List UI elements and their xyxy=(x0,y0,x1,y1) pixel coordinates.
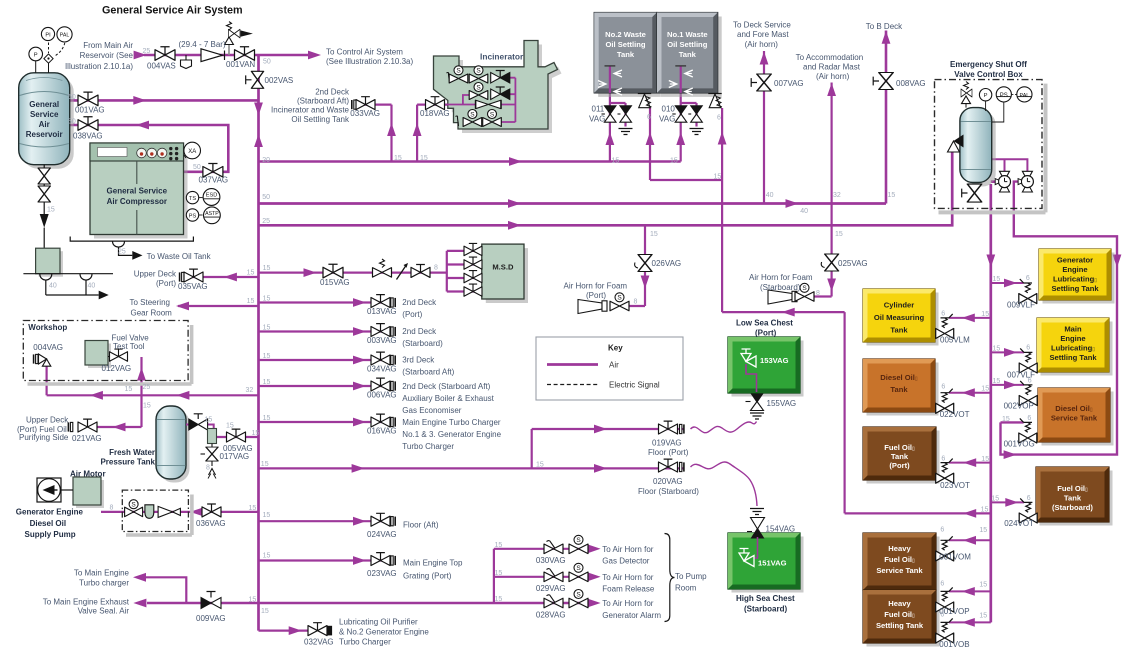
svg-text:(Air horn): (Air horn) xyxy=(745,40,779,49)
svg-text:15: 15 xyxy=(249,505,257,512)
svg-text:026VAG: 026VAG xyxy=(652,259,682,268)
relief valve no2 waste tank xyxy=(638,94,652,108)
svg-text:025VAG: 025VAG xyxy=(838,259,868,268)
gauge PAL xyxy=(57,27,72,42)
wire 006VAG branch xyxy=(259,385,391,387)
svg-text:15: 15 xyxy=(495,570,503,577)
svg-text:Tank: Tank xyxy=(890,385,908,394)
svg-text:2nd Deck: 2nd Deck xyxy=(315,88,350,97)
svg-text:Valve Seal. Air: Valve Seal. Air xyxy=(78,607,130,616)
svg-text:Purifying Side: Purifying Side xyxy=(19,433,69,442)
svg-text:Grating (Port): Grating (Port) xyxy=(403,572,452,581)
valve 036VAG xyxy=(202,504,221,517)
svg-text:50: 50 xyxy=(193,164,201,171)
valve 005VAG xyxy=(227,429,246,442)
svg-text:15: 15 xyxy=(247,298,255,305)
valve 002VOP xyxy=(1019,381,1037,406)
valve 002VAS xyxy=(246,71,264,88)
labels incinerator area xyxy=(271,52,524,163)
svg-text:012VAG: 012VAG xyxy=(102,364,132,373)
reservoir drain valves xyxy=(38,165,50,249)
labels deck branch valves xyxy=(263,296,502,452)
svg-text:20: 20 xyxy=(262,157,270,164)
svg-text:2nd Deck: 2nd Deck xyxy=(402,298,437,307)
svg-text:(Starboard): (Starboard) xyxy=(1052,503,1093,512)
svg-text:6: 6 xyxy=(1028,378,1032,385)
svg-text:50: 50 xyxy=(68,119,76,126)
svg-text:15: 15 xyxy=(263,325,271,332)
svg-text:153VAG: 153VAG xyxy=(760,356,789,365)
valve 153VAG white xyxy=(741,349,756,367)
valve 006VAG with hose xyxy=(371,378,395,391)
svg-text:General: General xyxy=(29,100,59,109)
vessel general service air reservoir xyxy=(19,73,74,169)
svg-text:Air Horn for Foam: Air Horn for Foam xyxy=(564,282,628,291)
svg-text:Diesel Oil▯: Diesel Oil▯ xyxy=(1055,404,1093,413)
valve 010VAG pair with ground xyxy=(672,106,703,135)
wire low sea chest feed branch y513 xyxy=(845,512,991,514)
svg-text:To Air Horn for: To Air Horn for xyxy=(602,545,653,554)
svg-text:Test Tool: Test Tool xyxy=(113,342,145,351)
svg-text:Foam Release: Foam Release xyxy=(602,585,655,594)
svg-text:022VOT: 022VOT xyxy=(940,410,970,419)
svg-text:ASTP: ASTP xyxy=(205,211,219,217)
svg-text:Tank: Tank xyxy=(617,50,635,59)
svg-text:Fuel Oil▯: Fuel Oil▯ xyxy=(1057,484,1088,493)
svg-text:017VAG: 017VAG xyxy=(220,452,250,461)
valve 011VAG pair with ground xyxy=(602,106,633,135)
svg-text:Diesel Oil▯: Diesel Oil▯ xyxy=(880,373,918,382)
svg-text:038VAG: 038VAG xyxy=(73,131,103,140)
solenoid valve generator alarm horn xyxy=(569,590,588,608)
svg-text:6: 6 xyxy=(1026,275,1030,282)
waste tank spray nozzles no2 xyxy=(598,66,622,95)
valve before MSD header xyxy=(411,265,430,278)
svg-text:15: 15 xyxy=(888,192,896,199)
wire 019VAG hose wavy to 155VAG xyxy=(691,422,757,433)
valve 032VAG xyxy=(308,623,332,636)
labels waste oil tanks area xyxy=(589,105,721,181)
svg-text:From Main Air: From Main Air xyxy=(83,41,133,50)
gauge PI xyxy=(41,27,54,40)
svg-text:Floor (Aft): Floor (Aft) xyxy=(403,521,439,530)
wire 001VAG line y100 xyxy=(69,99,259,102)
solenoid valve foam release horn xyxy=(569,563,588,581)
svg-text:6: 6 xyxy=(941,456,945,463)
check valve in pump box xyxy=(158,506,180,517)
svg-text:& No.2 Generator Engine: & No.2 Generator Engine xyxy=(339,628,429,637)
wire tank feed manifold xyxy=(991,182,998,623)
svg-text:15: 15 xyxy=(143,403,151,410)
svg-text:15: 15 xyxy=(125,386,133,393)
labels deck service masts xyxy=(733,21,926,216)
valve 038VAG xyxy=(78,117,98,131)
svg-text:024VAG: 024VAG xyxy=(367,530,397,539)
wire 036VAG supply pump line xyxy=(101,511,259,513)
wire workshop supply line xyxy=(47,357,259,427)
wire no1 tank internal overlay xyxy=(680,67,682,93)
svg-text:15: 15 xyxy=(495,596,503,603)
wire low sea chest valve stub xyxy=(746,364,757,392)
svg-text:To Steering: To Steering xyxy=(130,298,170,307)
svg-text:001VOG: 001VOG xyxy=(1004,440,1035,449)
wire 016VAG branch xyxy=(259,421,391,423)
svg-text:Emergency Shut Off: Emergency Shut Off xyxy=(950,60,1027,69)
svg-text:PAL: PAL xyxy=(1020,93,1030,99)
svg-text:028VAG: 028VAG xyxy=(536,611,566,620)
svg-text:033VAG: 033VAG xyxy=(350,109,380,118)
svg-text:Fuel Oil▯: Fuel Oil▯ xyxy=(884,610,915,619)
svg-text:Heavy: Heavy xyxy=(888,544,911,553)
svg-text:Gear Room: Gear Room xyxy=(131,309,173,318)
title General Service Air System xyxy=(102,5,243,17)
svg-text:021VAG: 021VAG xyxy=(72,434,102,443)
svg-text:Main Engine Turbo Charger: Main Engine Turbo Charger xyxy=(402,418,501,427)
gauge XA on compressor xyxy=(184,142,201,159)
svg-text:037VAG: 037VAG xyxy=(199,176,229,185)
svg-text:020VAG: 020VAG xyxy=(653,477,683,486)
wire 023VOT branch xyxy=(949,462,991,464)
instrument signal dashes and diamond xyxy=(44,43,65,73)
svg-text:001VOM: 001VOM xyxy=(939,553,971,562)
svg-text:3rd Deck: 3rd Deck xyxy=(402,356,435,365)
svg-text:15: 15 xyxy=(263,265,271,272)
svg-text:(Port): (Port) xyxy=(156,279,176,288)
valve 007VLF xyxy=(1019,348,1037,373)
svg-text:15: 15 xyxy=(981,456,989,463)
svg-text:8: 8 xyxy=(206,465,210,472)
tank low sea chest xyxy=(728,337,804,397)
wire bottom main y603 xyxy=(147,602,591,605)
svg-text:Fuel Oil▯: Fuel Oil▯ xyxy=(884,443,915,452)
tank fuel oil starboard xyxy=(1036,467,1113,526)
svg-text:Oil Settling: Oil Settling xyxy=(605,40,645,49)
svg-text:15: 15 xyxy=(263,296,271,303)
svg-text:15: 15 xyxy=(993,276,1001,283)
svg-text:Service Tank: Service Tank xyxy=(876,566,923,575)
valve 033VAG with hose connection xyxy=(352,97,375,110)
wire air horn riser x494 xyxy=(494,549,591,603)
valve 009VLF xyxy=(1019,279,1037,304)
svg-text:Air: Air xyxy=(39,120,50,129)
wire emergency box tank outlet piping xyxy=(992,159,1028,171)
svg-text:P: P xyxy=(34,52,38,58)
svg-text:009VLF: 009VLF xyxy=(1007,301,1035,310)
svg-text:Generator: Generator xyxy=(1057,256,1093,265)
labels emergency box xyxy=(950,60,1027,79)
svg-text:15: 15 xyxy=(979,527,987,534)
svg-text:PI: PI xyxy=(45,32,51,38)
svg-text:Tank: Tank xyxy=(679,50,697,59)
svg-text:Fresh Water: Fresh Water xyxy=(109,448,155,457)
wire to control air system xyxy=(259,54,312,57)
flow controller 1 xyxy=(995,171,1010,192)
valve 021VAG with hose xyxy=(68,419,97,432)
svg-text:023VAG: 023VAG xyxy=(367,569,397,578)
svg-text:(Port): (Port) xyxy=(755,329,777,338)
svg-text:40: 40 xyxy=(49,283,57,290)
svg-text:Illustration 2.10.1a): Illustration 2.10.1a) xyxy=(65,62,133,71)
wire incinerator internal piping xyxy=(463,78,516,122)
svg-text:Oil Settling Tank: Oil Settling Tank xyxy=(291,115,350,124)
tank heavy fuel oil settling xyxy=(863,590,940,647)
tank heavy fuel oil service xyxy=(863,533,940,594)
labels top left area xyxy=(47,40,413,225)
svg-text:General Service Air System: General Service Air System xyxy=(102,5,243,17)
valve 020VAG with hose xyxy=(659,459,684,472)
gauge P emergency xyxy=(979,89,991,112)
svg-text:Service Tank: Service Tank xyxy=(1051,414,1098,423)
svg-text:Engine: Engine xyxy=(1062,265,1087,274)
wire high sea chest valve stub xyxy=(754,537,758,558)
svg-text:Lubricating Oil Purifier: Lubricating Oil Purifier xyxy=(339,618,418,627)
wire to main engine turbo charger xyxy=(145,577,186,603)
svg-text:6: 6 xyxy=(1027,495,1031,502)
svg-text:(Air horn): (Air horn) xyxy=(816,72,850,81)
svg-text:001VOB: 001VOB xyxy=(939,640,969,649)
wire high sea chest internal xyxy=(754,538,758,558)
air horn for foam starboard with solenoid valve xyxy=(768,283,814,304)
svg-text:15: 15 xyxy=(495,542,503,549)
svg-text:Valve Control Box: Valve Control Box xyxy=(954,70,1023,79)
labels MSD line xyxy=(263,265,438,288)
valve 024VOT xyxy=(1019,498,1037,523)
wire 002VOP branch xyxy=(991,384,1024,386)
reducer cone xyxy=(201,49,225,62)
valve 035VAG with hose xyxy=(180,269,203,282)
svg-text:030VAG: 030VAG xyxy=(536,556,566,565)
svg-text:15: 15 xyxy=(263,415,271,422)
svg-text:PS: PS xyxy=(1000,93,1008,99)
svg-text:15: 15 xyxy=(979,582,987,589)
labels floor valves and sea chests xyxy=(261,319,796,614)
svg-text:M.S.D: M.S.D xyxy=(492,262,514,271)
equipment small green unit below reservoir xyxy=(36,248,63,277)
svg-text:Gas Detector: Gas Detector xyxy=(602,557,649,566)
valve 022VOT xyxy=(936,389,954,414)
svg-text:007VAG: 007VAG xyxy=(774,79,804,88)
check valve emergency inlet xyxy=(948,135,964,153)
svg-text:Lubricating▯: Lubricating▯ xyxy=(1053,275,1097,284)
svg-text:024VOT: 024VOT xyxy=(1004,519,1034,528)
svg-text:High Sea Chest: High Sea Chest xyxy=(736,594,795,603)
svg-text:2nd Deck: 2nd Deck xyxy=(402,327,437,336)
wire 009VLF branch xyxy=(991,282,1024,284)
svg-text:40: 40 xyxy=(766,192,774,199)
svg-text:6: 6 xyxy=(647,114,651,121)
svg-text:Tank: Tank xyxy=(1064,494,1082,503)
gauge P xyxy=(29,47,43,73)
svg-text:15: 15 xyxy=(835,231,843,238)
svg-text:Oil Measuring: Oil Measuring xyxy=(874,313,925,322)
valve 001VOP xyxy=(936,587,954,612)
svg-text:009VAG: 009VAG xyxy=(196,614,226,623)
svg-text:15: 15 xyxy=(536,462,544,469)
svg-text:151VAG: 151VAG xyxy=(758,559,787,568)
svg-text:155VAG: 155VAG xyxy=(767,399,797,408)
svg-text:15: 15 xyxy=(612,158,620,165)
svg-text:6: 6 xyxy=(1027,415,1031,422)
valve 154VAG with ground xyxy=(747,509,765,539)
svg-text:and Fore Mast: and Fore Mast xyxy=(737,30,789,39)
svg-text:No.1 Waste: No.1 Waste xyxy=(667,30,708,39)
svg-text:Generator Alarm: Generator Alarm xyxy=(602,611,661,620)
svg-text:Settling Tank: Settling Tank xyxy=(1051,284,1099,293)
svg-text:8: 8 xyxy=(816,290,820,297)
svg-text:Main: Main xyxy=(1064,325,1082,334)
svg-text:25: 25 xyxy=(143,384,151,391)
svg-text:Oil Settling: Oil Settling xyxy=(667,40,707,49)
gauge TS xyxy=(186,191,202,203)
svg-text:Low Sea Chest: Low Sea Chest xyxy=(736,319,793,328)
tank cylinder oil measuring xyxy=(863,289,939,346)
wire 033VAG riser xyxy=(356,105,392,162)
svg-text:002VAS: 002VAS xyxy=(265,76,294,85)
wire main distribution y225.3 to emergency box xyxy=(259,150,953,225)
valve 012VAG xyxy=(108,349,128,361)
svg-text:15: 15 xyxy=(979,613,987,620)
equipment incinerator body xyxy=(434,41,562,134)
svg-text:VAG: VAG xyxy=(659,115,675,124)
wire low sea chest internal xyxy=(746,366,757,392)
equipment fuel valve test tool green box xyxy=(85,341,111,369)
wire 001VOP branch xyxy=(949,590,991,592)
svg-text:019VAG: 019VAG xyxy=(652,439,682,448)
brace to pump room xyxy=(665,534,675,622)
svg-text:Incinerator: Incinerator xyxy=(480,52,524,62)
svg-text:8: 8 xyxy=(434,265,438,272)
wire 024VAG branch xyxy=(259,520,393,522)
svg-text:15: 15 xyxy=(991,496,999,503)
tank diesel oil service xyxy=(1038,388,1114,446)
svg-text:6: 6 xyxy=(717,115,721,122)
svg-text:15: 15 xyxy=(670,158,678,165)
svg-text:006VAG: 006VAG xyxy=(367,391,397,400)
svg-text:Cylinder: Cylinder xyxy=(884,301,914,310)
svg-text:PAL: PAL xyxy=(60,33,70,39)
svg-text:To B Deck: To B Deck xyxy=(866,22,903,31)
valve 007VAG xyxy=(751,74,771,91)
svg-text:004VAS: 004VAS xyxy=(147,62,176,71)
svg-text:To Main Engine: To Main Engine xyxy=(74,569,130,578)
svg-text:029VAG: 029VAG xyxy=(536,584,566,593)
svg-text:40: 40 xyxy=(800,208,808,215)
svg-text:6: 6 xyxy=(940,581,944,588)
svg-text:15: 15 xyxy=(1002,416,1010,423)
svg-text:15: 15 xyxy=(263,379,271,386)
svg-text:15: 15 xyxy=(993,378,1001,385)
svg-text:32: 32 xyxy=(246,387,254,394)
valve 013VAG with hose xyxy=(371,295,395,308)
svg-text:Workshop: Workshop xyxy=(28,323,67,332)
valve 028VAG needle xyxy=(544,595,563,608)
svg-text:25: 25 xyxy=(262,218,270,225)
svg-text:036VAG: 036VAG xyxy=(196,519,226,528)
wire 038VAG line to compressor via 037VAG xyxy=(69,125,228,172)
svg-text:15: 15 xyxy=(650,231,658,238)
labels left middle xyxy=(17,249,254,444)
svg-text:004VAG: 004VAG xyxy=(33,343,63,352)
wire 024VOT branch xyxy=(991,501,1024,503)
tank no2 waste oil settling xyxy=(594,13,661,97)
svg-text:018VAG: 018VAG xyxy=(420,109,450,118)
valve 001VOB xyxy=(936,618,954,643)
labels lower branches xyxy=(43,521,463,647)
svg-text:Turbo Charger: Turbo Charger xyxy=(402,442,454,451)
svg-text:Supply Pump: Supply Pump xyxy=(25,530,76,539)
valve 015VAG xyxy=(323,264,343,278)
tank diesel oil xyxy=(863,359,939,416)
wire no2 relief drop to y180 xyxy=(650,108,722,180)
tank generator engine lubricating settling xyxy=(1039,249,1115,304)
wire B deck riser 008VAG xyxy=(885,31,888,204)
svg-text:15: 15 xyxy=(981,507,989,514)
svg-text:ESD: ESD xyxy=(206,193,218,199)
wire 020VAG floor starboard line xyxy=(259,467,685,469)
svg-text:013VAG: 013VAG xyxy=(367,307,397,316)
svg-text:15: 15 xyxy=(261,608,269,615)
svg-text:154VAG: 154VAG xyxy=(766,525,796,534)
pressure reducer flag symbol xyxy=(181,55,192,69)
svg-text:15: 15 xyxy=(249,597,257,604)
wire flow controller 2 loop to right side xyxy=(1001,182,1118,455)
valve 004VAG angle with hose xyxy=(34,354,51,366)
wire 020VAG hose wavy to 154VAG xyxy=(691,462,758,506)
svg-text:50: 50 xyxy=(262,194,270,201)
svg-text:No.2 Waste: No.2 Waste xyxy=(605,30,646,39)
wire 035VAG upper deck line xyxy=(185,276,259,278)
svg-text:(Starboard Aft): (Starboard Aft) xyxy=(297,97,349,106)
svg-text:Floor (Port): Floor (Port) xyxy=(648,448,689,457)
valve 017VAG xyxy=(201,444,219,479)
gauge ESD xyxy=(203,189,220,206)
valve 004VAS xyxy=(155,47,175,61)
svg-text:15: 15 xyxy=(226,423,234,430)
wire 013VAG branch xyxy=(259,301,391,303)
svg-text:15: 15 xyxy=(981,386,989,393)
svg-text:15: 15 xyxy=(205,417,213,424)
valve 026VAG xyxy=(635,255,652,272)
incinerator valve row2 with solenoid xyxy=(469,83,488,100)
valve 155VAG with ground xyxy=(746,394,765,420)
svg-text:25: 25 xyxy=(143,48,151,55)
svg-text:To Waste Oil Tank: To Waste Oil Tank xyxy=(147,252,212,261)
gauge PS emergency xyxy=(992,87,1011,122)
inline filter green xyxy=(208,429,217,444)
MSD inlet valves x4 xyxy=(464,243,482,296)
svg-text:Reservoir (See: Reservoir (See xyxy=(80,51,134,60)
wire incinerator header y161.5 xyxy=(259,160,681,163)
svg-text:011: 011 xyxy=(592,105,605,114)
wire 018VAG riser xyxy=(417,105,476,162)
svg-text:15: 15 xyxy=(714,174,722,181)
wire accommodation riser and 025VAG drop to air horn xyxy=(813,83,832,297)
labels right tank manifold xyxy=(939,275,1035,649)
solenoid valve gas detector horn xyxy=(569,535,588,553)
wire 019VAG floor port line xyxy=(532,429,684,468)
valve 009VAG xyxy=(201,592,221,609)
svg-text:Incinerator and Waste: Incinerator and Waste xyxy=(271,106,350,115)
wire 005VLM branch xyxy=(949,317,991,319)
svg-text:50: 50 xyxy=(263,59,271,66)
svg-text:To Main Engine Exhaust: To Main Engine Exhaust xyxy=(43,598,130,607)
tank high sea chest xyxy=(728,533,804,593)
relief valve vent above 001VAN xyxy=(225,22,253,55)
valve 019VAG with hose xyxy=(659,421,684,434)
svg-text:(See Illustration 2.10.3a): (See Illustration 2.10.3a) xyxy=(326,57,413,66)
wire 034VAG branch xyxy=(259,359,391,361)
wire emergency check valve drop xyxy=(951,152,953,225)
